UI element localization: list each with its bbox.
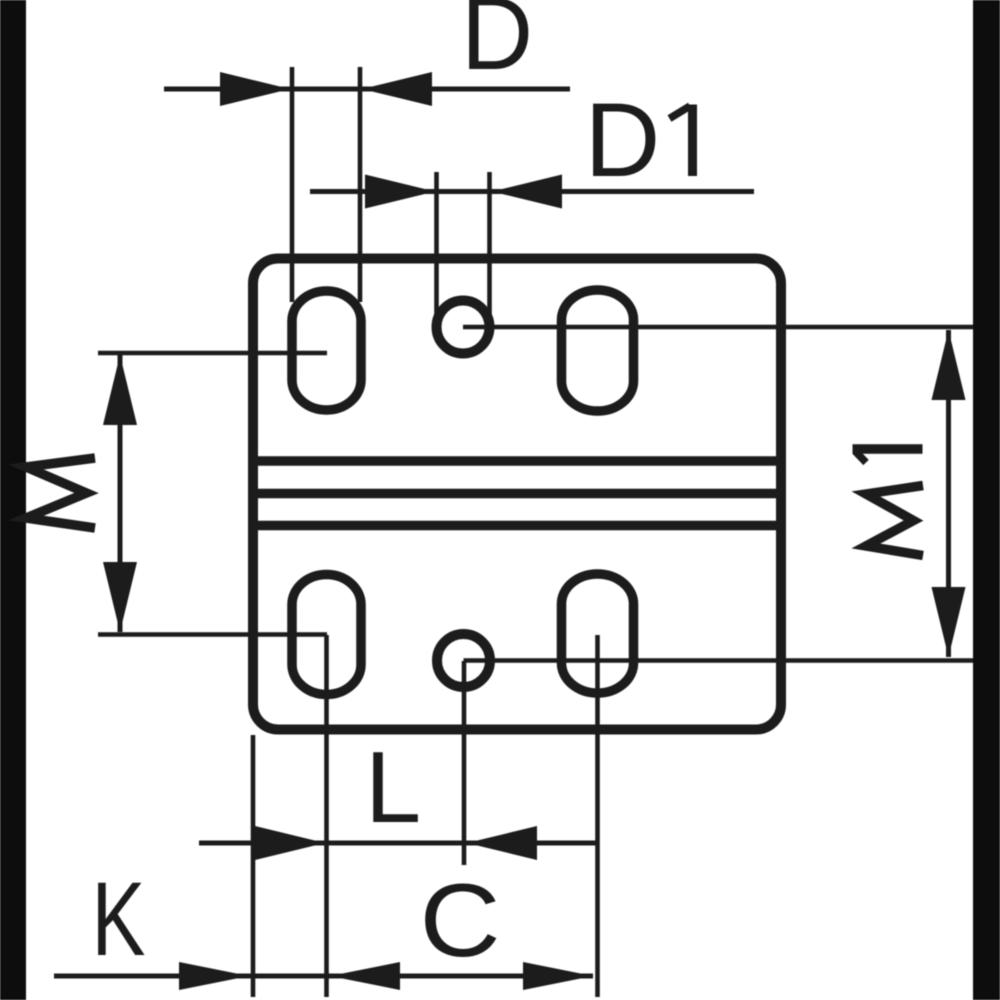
arrowhead D left (220, 72, 290, 106)
arrowhead L right (467, 826, 537, 860)
svg-text:D: D (461, 0, 533, 91)
right border bar (973, 0, 1000, 1000)
arrowhead D right (362, 72, 432, 106)
extension line slot-left center bottom (324, 635, 329, 997)
extension line M top (98, 351, 327, 356)
arrowhead M1 down (932, 587, 966, 657)
dimension D1 line (310, 189, 754, 194)
extension line M1 bottom (464, 658, 974, 663)
svg-text:K: K (92, 860, 146, 978)
arrowhead C right (523, 962, 593, 990)
svg-text:C: C (420, 862, 501, 978)
hole top (437, 301, 490, 354)
svg-text:D: D (585, 82, 661, 199)
extension line D right (358, 67, 363, 302)
body outline (253, 259, 781, 730)
arrowhead C left (330, 962, 400, 990)
groove line 1 (250, 456, 784, 466)
dimension M1 line (946, 330, 951, 657)
dimension M line (118, 355, 123, 632)
extension line M bottom (98, 632, 327, 637)
slot top-right (562, 290, 634, 411)
dimension D line (164, 87, 570, 92)
extension line M1 top (463, 325, 973, 330)
arrowhead K (179, 962, 249, 990)
dimension L line (199, 841, 597, 846)
arrowhead M up (103, 355, 137, 425)
groove line 2 (250, 489, 784, 499)
extension line body-left bottom (251, 735, 256, 997)
arrowhead M1 up (932, 330, 966, 400)
groove line 3 (250, 521, 784, 531)
arrowhead L left (255, 826, 325, 860)
slot top-left (292, 291, 361, 410)
extension line D left (290, 67, 295, 302)
arrowhead M down (103, 562, 137, 632)
slot bottom-right (562, 574, 634, 693)
label M (26, 458, 95, 528)
left border bar (0, 0, 26, 1000)
dimension K and C line (54, 974, 593, 979)
extension line D1 left (434, 172, 439, 320)
extension line hole-bottom center (462, 661, 467, 865)
slot bottom-left (292, 575, 361, 695)
arrowhead D1 right (492, 175, 562, 209)
extension line slot-right center bottom (595, 635, 600, 997)
arrowhead D1 left (365, 175, 435, 209)
svg-text:L: L (365, 732, 421, 844)
hole bottom (437, 634, 490, 687)
label M1 (866, 486, 923, 556)
extension line D1 right (487, 172, 492, 320)
